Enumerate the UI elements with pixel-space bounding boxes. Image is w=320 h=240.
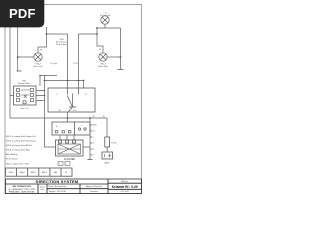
svg-text:(Saklar Sein): (Saklar Sein): [18, 82, 30, 85]
contact marks of SW-1: [21, 90, 30, 98]
legend text block: [6, 136, 37, 165]
label of resistor: [111, 143, 116, 145]
svg-text:Diperiksa: Diperiksa: [90, 190, 99, 193]
svg-text:SW-2 = Lampu Sein Dpn Kanan: SW-2 = Lampu Sein Dpn Kanan: [6, 141, 37, 143]
title block: [6, 179, 142, 194]
svg-text:BA = Battery: BA = Battery: [6, 153, 19, 156]
name and date cells: [49, 185, 67, 193]
svg-text:GN = Lampu Rem / Sein: GN = Lampu Rem / Sein: [6, 163, 30, 165]
wire: left horizontal to switch column: [47, 33, 68, 35]
label FLASHER: [64, 158, 75, 161]
PDF badge: [0, 0, 44, 27]
svg-text:E: E: [93, 149, 95, 151]
node strip top: [89, 117, 91, 119]
svg-text:R: R: [93, 143, 95, 145]
turn selector box U1: [48, 88, 95, 112]
node left feed junction: [46, 33, 48, 35]
battery BA-6: [102, 152, 113, 159]
svg-text:49a: 49a: [73, 110, 77, 112]
wire: flasher feeds: [60, 135, 90, 147]
svg-text:PEMALANG - JAWA TENGAH: PEMALANG - JAWA TENGAH: [9, 191, 35, 194]
turn switch SW-1 box: [14, 86, 37, 105]
svg-text:DIRECTION SYSTEM: DIRECTION SYSTEM: [36, 179, 79, 184]
wire: front-left feed drop to rear-left lamp: [38, 27, 47, 53]
svg-text:oleh: oleh: [41, 189, 44, 191]
svg-text:TC-B: TC-B: [73, 63, 78, 65]
svg-text:SW-1 = Lampu Sein Depan Kiri: SW-1 = Lampu Sein Depan Kiri: [6, 136, 36, 138]
drawn-by cell: [40, 186, 45, 192]
school name lines: [9, 185, 36, 193]
ground (right bus): [118, 69, 124, 71]
svg-text:18: 18: [40, 50, 43, 52]
svg-text:P: P: [93, 155, 95, 157]
pin tags below flasher: [58, 162, 70, 166]
svg-text:Tanggal : 10-10-2011: Tanggal : 10-10-2011: [49, 191, 67, 193]
labels of terminal row: [9, 171, 69, 174]
label turn switch SW-1: [18, 80, 30, 85]
pin squares of SW-1: [17, 89, 34, 104]
connector strip bus: [90, 118, 92, 159]
pins of relay box: [56, 128, 87, 133]
wire: front RH lamp stub and top rail: [97, 24, 121, 28]
wire: resistor to battery: [106, 147, 108, 152]
labels of connector strip: [93, 124, 98, 157]
svg-text:BA-6: BA-6: [105, 162, 111, 165]
label TC wire: [73, 63, 78, 65]
selector contacts: [68, 88, 79, 95]
approval cell: [86, 185, 102, 193]
wire: center column left drop: [67, 34, 69, 88]
svg-text:L: L: [56, 94, 58, 96]
svg-text:Nama : Achmad Rifai: Nama : Achmad Rifai: [49, 185, 67, 188]
svg-text:R 6Ω: R 6Ω: [111, 143, 116, 145]
page cells right: [112, 181, 138, 193]
label rear LH lamp: [33, 64, 43, 69]
svg-text:BA: BA: [54, 171, 57, 174]
battery terminals: [105, 154, 112, 158]
svg-text:BATT: BATT: [93, 124, 98, 127]
svg-text:IG: IG: [93, 131, 95, 133]
wire: switch output rail: [40, 76, 84, 89]
label 10: [99, 49, 102, 51]
label front RH lamp: [100, 13, 111, 18]
node stub junction: [39, 75, 41, 77]
wire: battery feed drop: [106, 118, 108, 137]
svg-text:SW-4: SW-4: [42, 172, 48, 174]
node lamp rail junction: [96, 27, 98, 29]
resistor R fuse: [105, 137, 110, 147]
svg-text:Approval (Standar): Approval (Standar): [86, 185, 102, 188]
svg-text:JL. PEMUDA NO.1 TELP. 0284: JL. PEMUDA NO.1 TELP. 0284: [9, 188, 35, 191]
svg-text:PDF: PDF: [9, 6, 36, 21]
wire: stub into switch box top: [39, 76, 41, 87]
svg-text:L: L: [93, 137, 94, 139]
svg-text:SW-2: SW-2: [20, 172, 26, 174]
labels 12 and 10 on feed wire: [93, 116, 106, 118]
terminal table row: [6, 168, 73, 176]
label 18: [40, 50, 43, 52]
flasher FL box: [56, 140, 84, 156]
svg-text:TL-Lght: TL-Lght: [50, 62, 57, 65]
svg-text:(Rear RH): (Rear RH): [98, 65, 108, 68]
page frame: [5, 5, 142, 194]
svg-text:(Distribution: (Distribution: [56, 41, 68, 44]
svg-text:+ -: + -: [80, 125, 83, 127]
wire: right ground bus: [120, 28, 122, 69]
wire: switch column vertical: [45, 76, 56, 148]
svg-text:R: R: [86, 94, 88, 96]
ground (connector strip): [88, 159, 93, 161]
label below SW-1: [21, 108, 29, 110]
labels in pin tags: [59, 164, 67, 166]
selector lever: [67, 94, 76, 112]
flasher internal cross: [58, 144, 81, 154]
svg-text:FL = Flasher: FL = Flasher: [6, 159, 18, 161]
wire: front-left lamp ground drop: [17, 27, 19, 71]
labels of selector: [56, 94, 88, 112]
svg-text:SMK TEXMACO PML: SMK TEXMACO PML: [12, 185, 32, 188]
svg-text:FL: FL: [65, 172, 68, 174]
svg-text:Halaman: Halaman: [121, 181, 128, 183]
node right feed junction: [96, 33, 98, 35]
svg-text:10: 10: [99, 49, 102, 51]
wire: rear RH lamp to right bus: [107, 56, 120, 58]
svg-text:SW-3: SW-3: [31, 172, 37, 174]
svg-text:SW-1: SW-1: [9, 172, 15, 174]
svg-text:Sein L-R: Sein L-R: [21, 108, 29, 110]
label BA-6: [105, 162, 111, 165]
relay box U2: [52, 122, 90, 135]
label B of relay box: [56, 125, 83, 128]
lamp SW-3 rear RH: [99, 53, 107, 61]
svg-text:SW-4 = Lampu Sein Blkg: SW-4 = Lampu Sein Blkg: [6, 150, 31, 152]
svg-text:(Front RH): (Front RH): [100, 14, 111, 17]
svg-text:30: 30: [59, 110, 62, 112]
wire: SW-1 outputs: [10, 91, 45, 101]
svg-text:(Rear LH): (Rear LH): [33, 65, 43, 68]
node switch feed junctions: [44, 90, 46, 97]
label rear RH lamp: [98, 64, 108, 69]
label DSB block: [56, 39, 68, 46]
svg-text:L: L: [66, 164, 67, 166]
svg-text:0-10-2011: 0-10-2011: [121, 191, 129, 193]
wire: center column right drop: [79, 34, 98, 88]
svg-text:Dibuat: Dibuat: [40, 186, 45, 189]
node feed wire junction: [67, 117, 69, 119]
svg-text:SW-3 = Lampu Sein Blk Kiri: SW-3 = Lampu Sein Blk Kiri: [6, 145, 33, 147]
ground (front-left lamp): [17, 70, 22, 72]
svg-text:Kelamar IN : 0-09: Kelamar IN : 0-09: [112, 185, 138, 189]
svg-text:B: B: [56, 126, 58, 128]
node rail junctions: [44, 80, 85, 82]
title text: [36, 179, 79, 184]
svg-text:Switch Box): Switch Box): [56, 43, 67, 46]
node right bus junction: [120, 56, 122, 58]
node lamp ground junction: [17, 56, 19, 58]
lamp SW-4 front RH: [101, 16, 109, 24]
wire: rear-right feed drop: [97, 28, 103, 53]
label TL wire: [50, 62, 57, 65]
wire: left battery bus vertical and bottom run: [10, 27, 107, 118]
svg-text:FLASHER: FLASHER: [64, 158, 75, 161]
lamp SW-2 rear LH: [34, 53, 42, 61]
wire: selector to relay box: [67, 112, 69, 122]
wire: ground column to rear LH lamp: [18, 56, 34, 58]
